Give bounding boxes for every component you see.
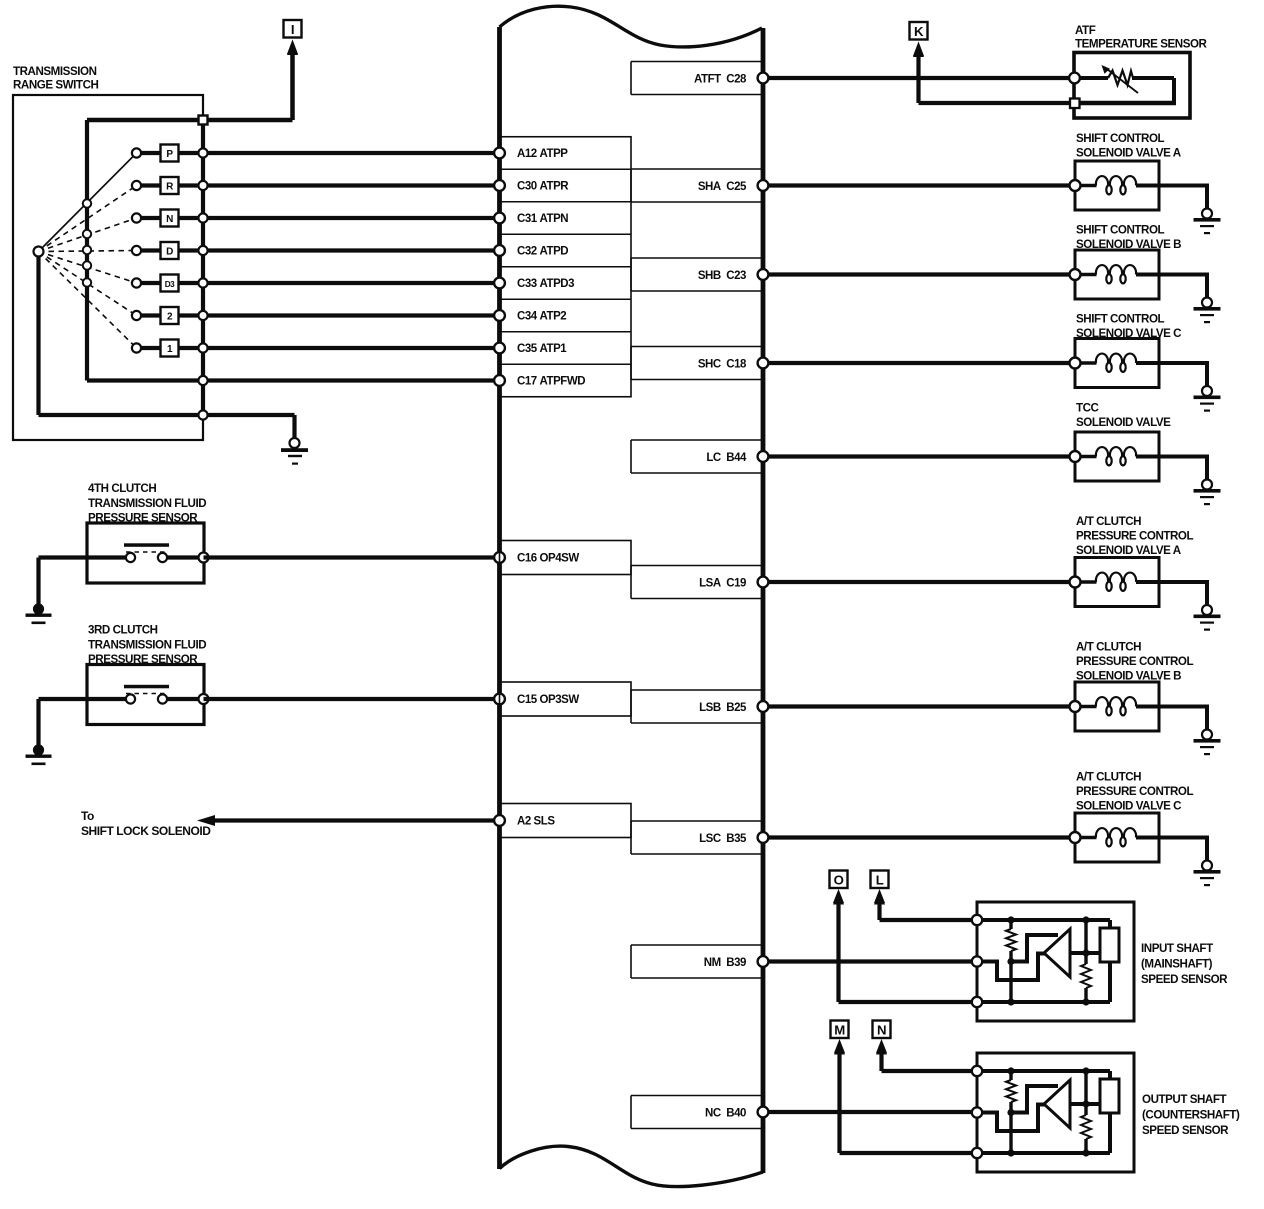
svg-text:A/T CLUTCH: A/T CLUTCH <box>1076 515 1141 528</box>
range switch ground <box>281 438 308 465</box>
wire SHC to solenoid <box>763 361 1075 365</box>
3RD CLUTCH label <box>88 624 206 667</box>
ground LC <box>1194 480 1221 506</box>
svg-text:A2 SLS: A2 SLS <box>517 816 555 828</box>
output shaft sensor junction dots <box>1007 1067 1089 1156</box>
connector K <box>910 22 928 56</box>
svg-text:SHIFT LOCK SOLENOID: SHIFT LOCK SOLENOID <box>81 824 211 838</box>
wire LC to solenoid <box>763 454 1075 458</box>
wire LSC to solenoid <box>763 835 1075 839</box>
connector K riser <box>913 42 1075 103</box>
svg-text:SPEED SENSOR: SPEED SENSOR <box>1141 973 1228 986</box>
input shaft sensor terminals <box>972 915 982 1007</box>
svg-text:TEMPERATURE SENSOR: TEMPERATURE SENSOR <box>1075 38 1208 51</box>
svg-text:SPEED SENSOR: SPEED SENSOR <box>1142 1124 1229 1137</box>
wire NM B39 to input sensor <box>763 959 977 963</box>
4TH CLUTCH pressure switch box <box>87 523 204 583</box>
connector N riser <box>876 1039 977 1071</box>
rotor solid contact ray to P <box>39 153 137 252</box>
switch inner left bus <box>85 120 89 381</box>
ground SHB <box>1194 298 1221 324</box>
svg-text:N: N <box>877 1022 886 1037</box>
junction P row on bus <box>198 148 207 157</box>
3RD CLUTCH pressure switch box <box>87 665 204 725</box>
svg-text:TRANSMISSION FLUID: TRANSMISSION FLUID <box>88 638 206 651</box>
4TH CLUTCH label <box>88 482 206 525</box>
range switch contact N <box>132 210 203 227</box>
svg-text:3RD CLUTCH: 3RD CLUTCH <box>88 624 158 637</box>
3RD CLUTCH sensor ground <box>26 744 52 765</box>
wire 3RD CLUTCH sensor to TCM <box>204 697 500 701</box>
3RD CLUTCH pressure switch contacts <box>39 685 204 704</box>
TCM connector body torn top edge <box>500 6 763 47</box>
svg-text:C35 ATP1: C35 ATP1 <box>517 343 567 355</box>
svg-text:SOLENOID VALVE C: SOLENOID VALVE C <box>1076 800 1182 813</box>
TCM left pin label stack <box>500 137 632 397</box>
wire ATFT C28 to sensor <box>763 76 1075 80</box>
ground SHA <box>1194 209 1221 235</box>
ATF temperature sensor label <box>1075 24 1208 51</box>
input shaft sensor resistor R1 <box>1006 929 1016 951</box>
TCM pin C16 OP4SW <box>494 552 505 563</box>
svg-text:LSA C19: LSA C19 <box>699 577 746 589</box>
svg-text:C30 ATPR: C30 ATPR <box>517 181 569 193</box>
output shaft speed sensor internal wiring <box>977 1071 1110 1153</box>
solenoid valve LSB <box>1070 682 1210 732</box>
svg-text:K: K <box>914 24 924 39</box>
solenoid valve SHA <box>1070 161 1210 211</box>
wire LSB to solenoid <box>763 704 1075 708</box>
ground LSC <box>1194 861 1221 887</box>
junction N row on bus <box>198 213 207 222</box>
svg-text:4TH CLUTCH: 4TH CLUTCH <box>88 482 156 495</box>
wire NC B40 to output sensor <box>763 1110 977 1114</box>
svg-text:TCC: TCC <box>1076 402 1100 415</box>
connector L <box>871 871 889 905</box>
switch right bus <box>201 120 205 415</box>
range switch contact D3 <box>132 275 203 292</box>
svg-text:OUTPUT SHAFT: OUTPUT SHAFT <box>1142 1093 1226 1106</box>
svg-text:(COUNTERSHAFT): (COUNTERSHAFT) <box>1142 1109 1240 1122</box>
svg-text:NM B39: NM B39 <box>704 957 746 969</box>
wire A2 SLS to shift lock solenoid <box>197 815 500 826</box>
range switch contact P <box>132 145 203 162</box>
junction ATPFWD row on bus <box>198 376 207 385</box>
svg-text:SHIFT CONTROL: SHIFT CONTROL <box>1076 313 1165 326</box>
svg-text:LC B44: LC B44 <box>706 452 747 464</box>
4TH CLUTCH sensor output junction <box>199 553 209 563</box>
SHC solenoid valve label <box>1076 313 1182 341</box>
4TH CLUTCH sensor ground <box>26 603 52 624</box>
junction 1 row on bus <box>198 343 207 352</box>
svg-text:P: P <box>166 149 173 160</box>
junction 2 row on bus <box>198 311 207 320</box>
input shaft sensor resistor R2 <box>1081 964 1091 988</box>
output shaft sensor resistor R2 <box>1081 1115 1091 1139</box>
svg-text:SOLENOID VALVE: SOLENOID VALVE <box>1076 416 1171 429</box>
svg-text:SHC C18: SHC C18 <box>698 358 747 370</box>
TCM pin A2 SLS terminal <box>494 815 505 826</box>
svg-text:LSC B35: LSC B35 <box>699 833 747 845</box>
svg-text:D: D <box>166 246 173 257</box>
SHB solenoid valve label <box>1076 224 1181 252</box>
TCM connector body right edge <box>761 28 766 1173</box>
wire SHB to solenoid <box>763 272 1075 276</box>
svg-text:PRESSURE CONTROL: PRESSURE CONTROL <box>1076 530 1193 543</box>
svg-text:C17 ATPFWD: C17 ATPFWD <box>517 376 585 388</box>
input shaft sensor junction dots <box>1007 916 1089 1005</box>
TCM connector body torn bottom edge <box>500 1146 764 1186</box>
svg-text:ATF: ATF <box>1075 24 1096 37</box>
switch feed junction square <box>199 116 208 125</box>
wire C17 ATPFWD row <box>87 378 500 382</box>
svg-text:SOLENOID VALVE A: SOLENOID VALVE A <box>1076 544 1182 557</box>
connector M riser <box>834 1039 977 1153</box>
junction R row on bus <box>198 181 207 190</box>
TCM left pin terminals <box>494 148 505 386</box>
TCM right pin label boxes <box>631 62 763 1129</box>
input shaft sensor amp input wiring <box>977 935 1058 980</box>
svg-text:C33 ATPD3: C33 ATPD3 <box>517 278 574 290</box>
3RD CLUTCH sensor output junction <box>199 694 209 704</box>
switch rotor pole <box>34 247 44 257</box>
svg-text:SHIFT CONTROL: SHIFT CONTROL <box>1076 132 1165 145</box>
junction ground row on bus <box>198 410 207 419</box>
svg-text:PRESSURE CONTROL: PRESSURE CONTROL <box>1076 785 1193 798</box>
svg-text:SHA C25: SHA C25 <box>698 181 747 193</box>
TCM pin C15 OP3SW <box>494 694 505 705</box>
4TH CLUTCH sensor ground riser <box>36 558 40 606</box>
junction D3 row on bus <box>198 278 207 287</box>
input shaft sensor op-amp <box>1044 929 1070 977</box>
connector L riser <box>874 889 977 920</box>
wire 1 contact to TCM <box>203 346 500 350</box>
ATF sensor terminal ATFT <box>1069 73 1080 84</box>
svg-text:M: M <box>834 1022 845 1037</box>
input shaft speed sensor label <box>1141 942 1228 986</box>
solenoid valve SHC <box>1070 339 1210 389</box>
wire N contact to TCM <box>203 216 500 220</box>
wire D3 contact to TCM <box>203 281 500 285</box>
ground SHC <box>1194 386 1221 412</box>
solenoid valve LSC <box>1070 813 1210 863</box>
svg-text:C16 OP4SW: C16 OP4SW <box>517 553 579 565</box>
svg-text:I: I <box>291 22 294 37</box>
input shaft speed sensor internal wiring <box>977 920 1110 1002</box>
SHA solenoid valve label <box>1076 132 1182 160</box>
transmission range switch label <box>13 65 98 92</box>
svg-text:PRESSURE CONTROL: PRESSURE CONTROL <box>1076 655 1193 668</box>
LSA solenoid valve label <box>1076 515 1193 557</box>
TCM connector body left edge <box>497 27 502 1169</box>
svg-text:O: O <box>834 872 844 887</box>
range switch contact D <box>132 242 203 259</box>
output shaft sensor resistor R1 <box>1006 1080 1016 1102</box>
ATF sensor terminal SG <box>1070 99 1080 109</box>
LSC solenoid valve label <box>1076 771 1193 813</box>
svg-text:To: To <box>81 809 94 823</box>
switch common feed wire to I <box>87 118 293 123</box>
svg-text:A12 ATPP: A12 ATPP <box>517 148 568 160</box>
connector O <box>830 871 848 905</box>
svg-text:A/T CLUTCH: A/T CLUTCH <box>1076 641 1141 654</box>
svg-text:NC B40: NC B40 <box>705 1107 746 1119</box>
connector M <box>831 1021 849 1055</box>
ground LSB <box>1194 730 1221 756</box>
wire 4TH CLUTCH sensor to TCM <box>204 555 500 559</box>
output shaft sensor amp input wiring <box>977 1086 1058 1131</box>
shift lock solenoid label <box>81 809 211 838</box>
TCM pin label C15 OP3SW <box>500 682 632 716</box>
svg-text:C32 ATPD: C32 ATPD <box>517 246 568 258</box>
connector O riser <box>833 889 977 1002</box>
TCM pin label C16 OP4SW <box>500 541 632 575</box>
junction D row on bus <box>198 246 207 255</box>
input shaft sensor output resistor block <box>1070 928 1119 962</box>
TCM right pin terminals <box>758 73 769 1118</box>
output shaft sensor output resistor block <box>1070 1079 1119 1113</box>
wire LSA to solenoid <box>763 580 1075 584</box>
output shaft speed sensor label <box>1142 1093 1240 1137</box>
4TH CLUTCH pressure switch contacts <box>39 543 204 562</box>
range switch contact R <box>132 177 203 194</box>
TCM pin label A2 SLS <box>500 804 632 838</box>
range switch contact 1 <box>132 340 203 357</box>
solenoid valve LC <box>1070 432 1210 482</box>
wire SHA to solenoid <box>763 183 1075 187</box>
solenoid valve LSA <box>1070 558 1210 608</box>
transmission range switch outer box <box>13 95 203 440</box>
ray pass-through terminals on inner bus <box>83 199 91 286</box>
range switch contact 2 <box>132 307 203 324</box>
solenoid valve SHB <box>1070 250 1210 300</box>
svg-text:C34 ATP2: C34 ATP2 <box>517 311 566 323</box>
switch rotor pole riser <box>36 254 40 415</box>
output shaft sensor op-amp <box>1044 1080 1070 1128</box>
svg-text:INPUT SHAFT: INPUT SHAFT <box>1141 942 1213 955</box>
connector I <box>284 20 302 120</box>
svg-text:TRANSMISSION: TRANSMISSION <box>13 65 97 78</box>
svg-text:SHIFT CONTROL: SHIFT CONTROL <box>1076 224 1165 237</box>
wire D contact to TCM <box>203 248 500 252</box>
svg-text:LSB B25: LSB B25 <box>699 702 747 714</box>
3RD CLUTCH sensor ground riser <box>36 699 40 746</box>
wire R contact to TCM <box>203 183 500 187</box>
output shaft sensor terminals <box>972 1066 982 1158</box>
svg-text:ATFT C28: ATFT C28 <box>694 73 747 85</box>
svg-text:C31 ATPN: C31 ATPN <box>517 213 568 225</box>
svg-text:SOLENOID VALVE A: SOLENOID VALVE A <box>1076 147 1182 160</box>
svg-text:D3: D3 <box>165 280 175 289</box>
ATF temperature sensor box <box>1074 53 1190 119</box>
output shaft speed sensor box <box>977 1053 1134 1172</box>
svg-text:N: N <box>166 214 173 225</box>
svg-text:TRANSMISSION FLUID: TRANSMISSION FLUID <box>88 497 206 510</box>
ground LSA <box>1194 605 1221 631</box>
LSB solenoid valve label <box>1076 641 1193 683</box>
svg-text:L: L <box>876 872 884 887</box>
switch bottom ground wire <box>39 415 295 440</box>
ATF sensor thermistor <box>1080 65 1176 103</box>
wire 2 contact to TCM <box>203 313 500 317</box>
svg-text:A/T CLUTCH: A/T CLUTCH <box>1076 771 1141 784</box>
svg-text:SHB C23: SHB C23 <box>698 270 746 282</box>
connector N <box>873 1021 891 1055</box>
input shaft speed sensor box <box>977 902 1134 1021</box>
wire P contact to TCM <box>203 151 500 155</box>
svg-text:RANGE SWITCH: RANGE SWITCH <box>13 79 98 92</box>
rotor dashed rays to R N D D3 2 1 <box>39 186 137 349</box>
svg-text:C15 OP3SW: C15 OP3SW <box>517 694 579 706</box>
LC solenoid valve label <box>1076 402 1171 430</box>
svg-text:(MAINSHAFT): (MAINSHAFT) <box>1141 958 1213 971</box>
